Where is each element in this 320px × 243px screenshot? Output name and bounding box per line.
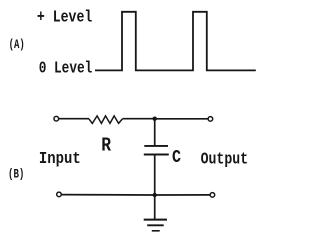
- node bottom junction: [153, 193, 157, 197]
- svg-text:Output: Output: [201, 150, 249, 169]
- Input bottom terminal: [57, 192, 62, 197]
- wire input terminal to resistor: [59, 118, 89, 120]
- svg-text:Input: Input: [39, 150, 81, 169]
- svg-text:(B): (B): [8, 166, 24, 181]
- capacitor C top plate: [144, 145, 168, 147]
- svg-text:(A): (A): [9, 37, 25, 52]
- svg-text:0 Level: 0 Level: [39, 59, 93, 78]
- Input top terminal: [54, 116, 59, 121]
- wire resistor to top junction: [122, 118, 154, 120]
- ground bar 3: [152, 230, 160, 232]
- ground bar 2: [147, 224, 164, 226]
- capacitor C bottom plate: [144, 154, 169, 156]
- waveform pulse train: [95, 12, 256, 71]
- bottom wire right segment: [155, 194, 210, 196]
- Output top terminal: [208, 117, 213, 122]
- node top junction: [153, 117, 157, 121]
- resistor R: [89, 116, 122, 124]
- ground bar 1: [144, 219, 167, 221]
- wire capacitor to bottom junction: [154, 155, 156, 195]
- wire top junction to output terminal: [155, 118, 208, 120]
- Output bottom terminal: [210, 193, 215, 198]
- svg-text:C: C: [172, 148, 181, 168]
- wire top junction to capacitor: [154, 119, 156, 146]
- svg-text:+ Level: + Level: [37, 9, 92, 28]
- svg-text:R: R: [101, 135, 111, 157]
- bottom wire left segment: [62, 194, 155, 196]
- wire bottom junction to ground: [154, 195, 156, 219]
